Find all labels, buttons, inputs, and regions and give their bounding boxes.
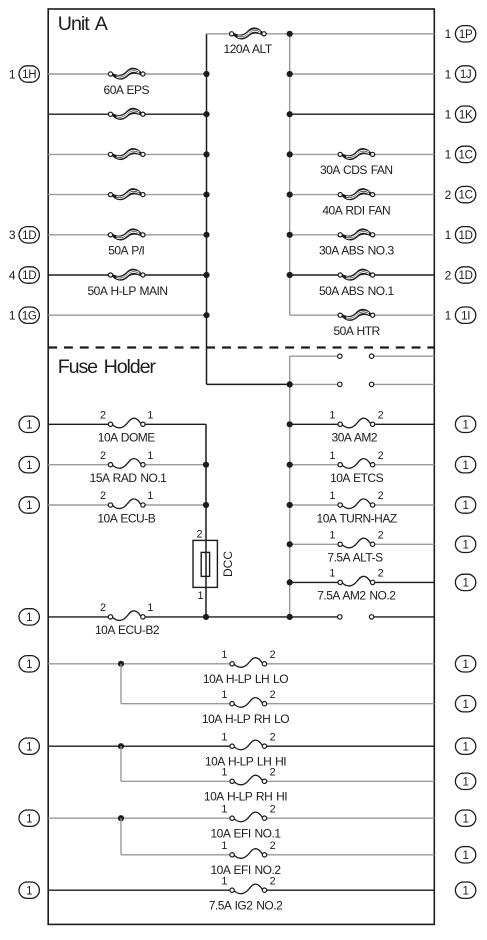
svg-text:2: 2 <box>270 649 276 661</box>
svg-text:1: 1 <box>26 419 32 431</box>
DCC branch wire vertical <box>205 424 207 617</box>
wire fuse TURN-HAZ to right border <box>373 504 435 506</box>
connector 1 (IG2 NO.2 row left) <box>19 882 39 898</box>
svg-text:2: 2 <box>378 568 384 580</box>
fusible link 120A ALT <box>230 28 267 39</box>
connector 1 (AM2 NO.2 row right) <box>455 574 475 590</box>
svg-text:2: 2 <box>100 490 106 502</box>
junction right bus AM2 row <box>287 421 293 427</box>
wire fuse H-LP RH LO to right border <box>265 703 435 705</box>
wire connector 1H to fuse F-EPS <box>48 73 110 75</box>
wire right bus to fuse AM2 NO.2 <box>290 581 341 583</box>
connector 1J <box>455 66 475 82</box>
wire fuse F-EPS to left bus <box>143 73 207 75</box>
wire fuse AM2 to right border <box>373 423 435 425</box>
svg-text:50A H-LP MAIN: 50A H-LP MAIN <box>88 284 168 298</box>
wire fuse H-LP LH LO to right border <box>265 663 435 665</box>
svg-text:10A H-LP RH HI: 10A H-LP RH HI <box>204 790 287 804</box>
svg-text:1: 1 <box>9 309 16 323</box>
junction right bus row 1K <box>287 111 293 117</box>
svg-text:1D: 1D <box>459 230 473 242</box>
svg-text:1: 1 <box>463 659 469 671</box>
svg-text:10A H-LP RH LO: 10A H-LP RH LO <box>202 712 289 726</box>
connector 1 (AM2 row right) <box>455 416 475 432</box>
wire fuse RAD NO.1 to DCC branch <box>143 464 206 466</box>
connector 1G <box>19 307 39 323</box>
wire fuse ABS NO.1 to connector 2-1D <box>373 274 435 276</box>
wire spare socket B to right border <box>372 383 435 385</box>
wire fuse EFI NO.1 to right border <box>265 817 435 819</box>
svg-text:1: 1 <box>329 568 335 580</box>
svg-text:1I: 1I <box>461 310 470 322</box>
svg-text:1: 1 <box>26 741 32 753</box>
wire to fuse H-LP LH HI <box>48 745 232 747</box>
svg-text:1: 1 <box>445 309 452 323</box>
connector 1D pin3 <box>19 227 39 243</box>
wire fusible link row4 to left bus <box>143 153 207 155</box>
svg-text:2: 2 <box>378 450 384 462</box>
svg-text:2: 2 <box>196 529 202 541</box>
svg-text:2: 2 <box>270 875 276 887</box>
wire right bus to connector 1J <box>290 73 435 75</box>
svg-text:2: 2 <box>378 490 384 502</box>
wire to fuse H-LP LH LO <box>48 663 232 665</box>
svg-text:1: 1 <box>147 602 153 614</box>
svg-text:60A EPS: 60A EPS <box>104 83 150 97</box>
svg-text:1: 1 <box>221 689 227 701</box>
connector 1 (EFI NO.2 row right) <box>455 847 475 863</box>
svg-text:1: 1 <box>329 450 335 462</box>
svg-text:1: 1 <box>26 885 32 897</box>
junction left bus row 1G <box>203 312 209 318</box>
svg-text:10A ETCS: 10A ETCS <box>330 471 384 485</box>
svg-text:1: 1 <box>221 803 227 815</box>
connector 1D right <box>455 227 475 243</box>
svg-text:10A H-LP LH LO: 10A H-LP LH LO <box>203 672 288 686</box>
wire fusible link row3 to left bus <box>143 113 207 115</box>
wire fuse F-ALT to connector 1P <box>264 33 434 35</box>
connector 1I <box>455 307 475 323</box>
svg-text:1: 1 <box>221 731 227 743</box>
wire fuse ECU-B2 to right bus <box>143 616 290 618</box>
connector 1 (EFI NO.1 row right) <box>455 810 475 826</box>
svg-text:1: 1 <box>147 490 153 502</box>
connector 1 (RAD row left) <box>19 457 39 473</box>
fuse 7.5A ALT-S <box>338 538 375 548</box>
wire to fuse EFI NO.2 <box>121 854 232 856</box>
svg-text:7.5A IG2 NO.2: 7.5A IG2 NO.2 <box>209 899 283 913</box>
wire to fuse H-LP RH HI <box>121 780 232 782</box>
junction left bus row 1H <box>203 71 209 77</box>
svg-text:30A AM2: 30A AM2 <box>332 431 378 445</box>
connector 1C pin2 <box>455 186 475 202</box>
wire left border to fuse ECU-B2 <box>48 616 110 618</box>
right bus wire upper (Unit A) <box>289 34 291 315</box>
wire fusible link row5 to left bus <box>143 194 207 196</box>
wire right bus elbow to fuse HTR <box>290 314 341 316</box>
wire left-bus to fuse F-ALT <box>207 33 232 35</box>
svg-text:1: 1 <box>445 148 452 162</box>
connector 1 (H-LP RH LO row right) <box>455 696 475 712</box>
junction DCC branch ECU-B row <box>203 502 209 508</box>
daytime running light relay DCC (outer body) <box>193 540 217 587</box>
svg-text:1: 1 <box>9 67 16 81</box>
junction right bus row 1C <box>287 151 293 157</box>
fuse 10A ETCS <box>338 459 375 469</box>
svg-text:3: 3 <box>9 228 16 242</box>
junction branch H-LP LH LO row <box>118 661 124 667</box>
connector 1C <box>455 146 475 162</box>
connector 1 (ALT-S row right) <box>455 536 475 552</box>
fuse 10A ECU-B <box>108 499 145 509</box>
svg-text:7.5A ALT-S: 7.5A ALT-S <box>327 551 383 565</box>
svg-text:1: 1 <box>26 813 32 825</box>
wire right bus to fuse CDS FAN <box>290 153 341 155</box>
svg-text:50A HTR: 50A HTR <box>334 324 381 338</box>
svg-text:10A ECU-B: 10A ECU-B <box>97 511 155 525</box>
wire left border to fusible link row5 <box>48 194 110 196</box>
junction right bus row 2-1C <box>287 192 293 198</box>
wire fuse H-LP MAIN to left bus <box>143 274 207 276</box>
wire branch down from H-LP LH LO row <box>120 664 122 704</box>
svg-text:1D: 1D <box>22 270 36 282</box>
svg-text:1: 1 <box>463 776 469 788</box>
svg-text:2: 2 <box>100 450 106 462</box>
svg-text:1: 1 <box>463 741 469 753</box>
connector 1 (H-LP LH HI row left) <box>19 738 39 754</box>
wire right bus to fuse ALT-S <box>290 543 341 545</box>
svg-text:2: 2 <box>270 731 276 743</box>
svg-text:1: 1 <box>26 612 32 624</box>
svg-text:1: 1 <box>221 649 227 661</box>
wire right bus to fuse ETCS <box>290 464 341 466</box>
spare fuse socket B (empty) <box>338 382 374 386</box>
junction left bus row5 <box>203 192 209 198</box>
svg-text:1: 1 <box>221 875 227 887</box>
wire fuse ETCS to right border <box>373 464 435 466</box>
svg-text:1G: 1G <box>22 310 37 322</box>
connector 1 (H-LP LH LO row right) <box>455 656 475 672</box>
svg-text:50A ABS NO.1: 50A ABS NO.1 <box>319 284 395 298</box>
wire to fuse EFI NO.1 <box>48 817 232 819</box>
junction DCC branch ECU-B2 row <box>203 614 209 620</box>
DCC inner element <box>201 552 209 576</box>
fuse 10A H-LP LH HI <box>230 740 267 750</box>
svg-text:1: 1 <box>221 767 227 779</box>
fusible link 50A P/I <box>108 229 145 240</box>
svg-text:50A P/I: 50A P/I <box>108 244 144 258</box>
left bus wire (Unit A supply node) <box>206 34 208 385</box>
wire spare socket C to right border <box>372 616 435 618</box>
relay box border frame <box>48 9 434 924</box>
fusible link 30A ABS NO.3 <box>338 229 375 240</box>
junction DCC branch RAD row <box>203 462 209 468</box>
wire fuse IG2 NO.2 to right border <box>265 889 435 891</box>
wire to fuse H-LP RH LO <box>121 703 232 705</box>
junction right bus row ABS NO.1 <box>287 272 293 278</box>
svg-text:1: 1 <box>221 840 227 852</box>
connector 1 (DOME row left) <box>19 416 39 432</box>
junction branch EFI NO.1 row <box>118 815 124 821</box>
wire fuse H-LP LH HI to right border <box>265 745 435 747</box>
svg-text:1P: 1P <box>459 29 473 41</box>
svg-text:40A RDI FAN: 40A RDI FAN <box>322 203 390 217</box>
connector 1P <box>455 26 475 42</box>
svg-text:1C: 1C <box>459 190 473 202</box>
wire fuse ECU-B to DCC branch <box>143 504 206 506</box>
svg-text:1: 1 <box>463 500 469 512</box>
wire fuse ABS NO.3 to connector 1D <box>373 234 435 236</box>
junction right bus ECU-B2 row <box>287 614 293 620</box>
svg-text:1: 1 <box>329 410 335 422</box>
spare fuse socket C (empty) <box>338 615 374 619</box>
wire right bus to fuse RDI FAN <box>290 194 341 196</box>
svg-text:2: 2 <box>270 689 276 701</box>
junction left bus row H-LP MAIN <box>203 272 209 278</box>
wire fuse EFI NO.2 to right border <box>265 854 435 856</box>
svg-text:10A ECU-B2: 10A ECU-B2 <box>95 623 160 637</box>
svg-text:1: 1 <box>329 530 335 542</box>
svg-text:30A CDS FAN: 30A CDS FAN <box>320 163 393 177</box>
junction left bus row3 <box>203 111 209 117</box>
svg-text:1: 1 <box>329 490 335 502</box>
junction left bus row P/I <box>203 232 209 238</box>
svg-text:10A EFI NO.1: 10A EFI NO.1 <box>210 827 281 841</box>
junction left bus row4 <box>203 151 209 157</box>
fusible link 50A H-LP MAIN <box>108 269 145 280</box>
svg-text:2: 2 <box>100 410 106 422</box>
wire branch down from H-LP LH HI row <box>120 746 122 781</box>
connector 1 (H-LP RH HI row right) <box>455 773 475 789</box>
svg-text:1: 1 <box>463 539 469 551</box>
wire fuse H-LP RH HI to right border <box>265 780 435 782</box>
fuse 15A RAD NO.1 <box>108 459 145 469</box>
fusible link 40A RDI FAN <box>338 189 375 200</box>
svg-text:1D: 1D <box>459 270 473 282</box>
wire fuse ALT-S to right border <box>373 543 435 545</box>
junction right bus row ABS NO.3 <box>287 232 293 238</box>
wire fuse P/I to left bus <box>143 234 207 236</box>
svg-text:DCC: DCC <box>221 551 235 577</box>
wire left border to fuse ECU-B <box>48 504 110 506</box>
junction right bus AM2 NO.2 row <box>287 579 293 585</box>
svg-text:10A TURN-HAZ: 10A TURN-HAZ <box>317 511 397 525</box>
wire right bus to fuse ABS NO.1 <box>290 274 341 276</box>
connector 1 (H-LP LH HI row right) <box>455 738 475 754</box>
svg-text:120A ALT: 120A ALT <box>224 42 273 56</box>
connector 1 (IG2 NO.2 row right) <box>455 882 475 898</box>
svg-text:4: 4 <box>9 268 16 282</box>
wire fuse HTR to connector 1I <box>373 314 435 316</box>
fuse 10A EFI NO.1 <box>230 812 267 822</box>
connector 1D pin4 <box>19 267 39 283</box>
fuse 10A TURN-HAZ <box>338 499 375 509</box>
connector 1 (ECU-B row left) <box>19 497 39 513</box>
junction right bus / 1P row <box>287 31 293 37</box>
fusible link row3 (unlabeled) <box>108 108 145 119</box>
wire right bus to spare socket B <box>290 383 340 385</box>
svg-text:1: 1 <box>26 500 32 512</box>
connector 1 (EFI NO.1 row left) <box>19 810 39 826</box>
wire right bus elbow to spare socket A <box>290 355 340 357</box>
svg-text:15A RAD NO.1: 15A RAD NO.1 <box>90 471 168 485</box>
svg-text:1: 1 <box>147 450 153 462</box>
fuse 10A H-LP RH HI <box>230 775 267 785</box>
wire fuse AM2 NO.2 to right border <box>373 581 435 583</box>
wire right bus to spare socket C <box>290 616 340 618</box>
wire right bus to fuse AM2 <box>290 423 341 425</box>
junction right bus TURN-HAZ row <box>287 502 293 508</box>
svg-text:1: 1 <box>147 410 153 422</box>
svg-text:1: 1 <box>463 699 469 711</box>
svg-text:Fuse Holder: Fuse Holder <box>58 356 157 378</box>
svg-text:1: 1 <box>463 850 469 862</box>
fuse 7.5A IG2 NO.2 <box>230 884 267 894</box>
svg-text:2: 2 <box>445 268 452 282</box>
svg-text:1: 1 <box>445 67 452 81</box>
svg-text:1K: 1K <box>459 109 473 121</box>
svg-text:Unit A: Unit A <box>58 13 109 35</box>
svg-text:1C: 1C <box>459 150 473 162</box>
wire fuse RDI FAN to connector 2-1C <box>373 194 435 196</box>
wire left border to fuse DOME <box>48 423 110 425</box>
wire connector 1D-4 to fuse H-LP MAIN <box>48 274 110 276</box>
svg-text:1: 1 <box>463 885 469 897</box>
fusible link 60A EPS <box>108 68 145 79</box>
svg-text:7.5A AM2 NO.2: 7.5A AM2 NO.2 <box>317 589 396 603</box>
fuse 10A EFI NO.2 <box>230 849 267 859</box>
svg-text:1H: 1H <box>22 69 36 81</box>
wire connector 1G to left bus <box>48 314 206 316</box>
svg-text:1: 1 <box>445 108 452 122</box>
svg-text:1: 1 <box>197 590 203 602</box>
svg-text:1: 1 <box>26 659 32 671</box>
spare fuse socket A (empty) <box>338 354 374 358</box>
svg-text:2: 2 <box>270 803 276 815</box>
svg-text:1: 1 <box>463 578 469 590</box>
wire left border to fuse RAD NO.1 <box>48 464 110 466</box>
svg-text:30A ABS NO.3: 30A ABS NO.3 <box>319 244 395 258</box>
wire right bus to fuse ABS NO.3 <box>290 234 341 236</box>
fuse 10A ECU-B2 <box>108 611 145 621</box>
svg-text:10A DOME: 10A DOME <box>98 431 156 445</box>
connector 1D pin2 right <box>455 267 475 283</box>
svg-text:2: 2 <box>270 767 276 779</box>
svg-text:2: 2 <box>378 530 384 542</box>
svg-text:2: 2 <box>100 602 106 614</box>
connector 1 (ETCS row right) <box>455 457 475 473</box>
junction right bus row 1J <box>287 71 293 77</box>
fusible link 30A CDS FAN <box>338 149 375 160</box>
fuse 10A DOME <box>108 418 145 428</box>
svg-text:1D: 1D <box>22 230 36 242</box>
svg-text:1J: 1J <box>460 69 472 81</box>
connector 1H <box>19 66 39 82</box>
fusible link row4 (unlabeled) <box>108 149 145 160</box>
svg-text:1: 1 <box>463 460 469 472</box>
wire right bus to fuse TURN-HAZ <box>290 504 341 506</box>
svg-text:1: 1 <box>463 419 469 431</box>
wire fuse CDS FAN to connector 1C <box>373 153 435 155</box>
svg-text:1: 1 <box>26 460 32 472</box>
svg-text:2: 2 <box>270 840 276 852</box>
connector 1 (TURN-HAZ row right) <box>455 497 475 513</box>
wire left border to fusible link row4 <box>48 153 110 155</box>
fusible link 50A HTR <box>338 309 375 320</box>
fusible link 50A ABS NO.1 <box>338 269 375 280</box>
connector 1 (H-LP LH LO row left) <box>19 656 39 672</box>
junction branch H-LP LH HI row <box>118 743 124 749</box>
junction right bus ALT-S row <box>287 541 293 547</box>
wire branch down from EFI NO.1 row <box>120 818 122 855</box>
junction right bus socket B row <box>287 381 293 387</box>
wire fuse DOME to DCC branch corner <box>143 423 206 425</box>
svg-text:2: 2 <box>378 410 384 422</box>
connector 1K <box>455 106 475 122</box>
wire connector 1D-3 to fuse P/I <box>48 234 110 236</box>
fuse 10A H-LP LH LO <box>230 658 267 668</box>
svg-text:1: 1 <box>463 813 469 825</box>
dashed separator between Unit A and Fuse Holder <box>48 346 434 348</box>
svg-text:2: 2 <box>445 188 452 202</box>
junction right bus ETCS row <box>287 462 293 468</box>
wire left border to fusible link row3 <box>48 113 110 115</box>
wire to fuse IG2 NO.2 <box>48 889 232 891</box>
connector 1 (ECU-B2 row left) <box>19 609 39 625</box>
right bus wire lower (fuse holder) <box>289 356 291 617</box>
svg-text:1: 1 <box>445 228 452 242</box>
wire left bus elbow to right bus (socket B feed) <box>207 383 290 385</box>
wire right bus to connector 1K <box>290 113 435 115</box>
wire spare socket A to right border <box>372 355 435 357</box>
fuse 10A H-LP RH LO <box>230 698 267 708</box>
svg-text:1: 1 <box>445 27 452 41</box>
fusible link row5 (unlabeled) <box>108 189 145 200</box>
fuse 7.5A AM2 NO.2 <box>338 576 375 586</box>
fuse 30A AM2 <box>338 418 375 428</box>
